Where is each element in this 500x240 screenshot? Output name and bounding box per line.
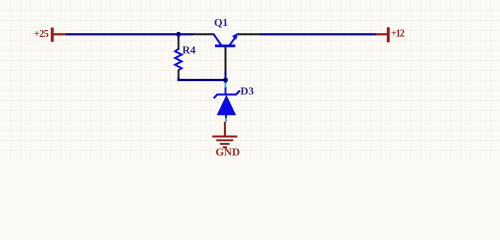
ground bar 3 — [220, 143, 230, 145]
svg-text:Q1: Q1 — [214, 17, 228, 29]
resistor R4 pin 2 (bottom) — [178, 70, 180, 79]
diode D3 cathode pin (upper) — [225, 80, 227, 83]
diode D3 anode triangle — [217, 95, 236, 116]
wire: R4 bottom corner to base node — [179, 78, 226, 81]
svg-text:+12: +12 — [391, 29, 405, 40]
power port +25 bar — [51, 28, 54, 42]
wire: junction down to R4 — [178, 34, 180, 41]
transistor Q1 collector pin — [193, 33, 215, 35]
resistor R4 pin 1 (top) — [178, 38, 180, 50]
junction node at R4 tap — [176, 32, 181, 37]
wire: +25 to Q1 collector — [66, 33, 193, 35]
ground bar 1 — [212, 136, 237, 138]
diode D3 zener cathode bar — [214, 91, 240, 99]
wire: base pin to node — [225, 71, 227, 80]
transistor Q1 emitter diagonal — [230, 36, 237, 45]
transistor Q1 collector diagonal — [213, 34, 221, 45]
wire: Q1 emitter to +12 — [261, 33, 377, 35]
transistor Q1 base bar — [215, 45, 235, 48]
diode D3 anode pin (lower) — [225, 115, 227, 118]
svg-text:+25: +25 — [34, 29, 49, 40]
transistor Q1 emitter pin — [238, 33, 261, 35]
ground bar 2 — [216, 139, 233, 141]
svg-text:D3: D3 — [240, 85, 254, 97]
transistor Q1 emitter arrowhead — [232, 33, 238, 40]
power port +25 lead — [54, 33, 67, 35]
ground bar 4 — [223, 146, 227, 148]
transistor Q1 base pin — [225, 47, 227, 72]
svg-text:R4: R4 — [182, 45, 196, 57]
ground lead — [224, 122, 226, 136]
power port +12 lead — [376, 33, 387, 35]
svg-text:GND: GND — [216, 147, 241, 159]
power port +12 bar — [387, 27, 390, 42]
resistor R4 body — [175, 49, 182, 70]
junction node at base / D3 — [223, 78, 228, 83]
